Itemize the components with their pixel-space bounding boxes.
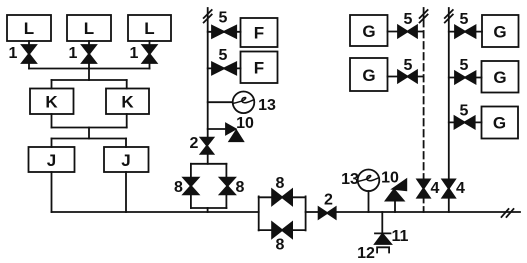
svg-text:G: G	[493, 68, 506, 87]
valve 5c	[398, 11, 417, 38]
valve 1c	[130, 45, 157, 63]
svg-text:8: 8	[236, 179, 245, 196]
check valve 10 bottom (angle)	[381, 170, 406, 213]
svg-text:5: 5	[460, 103, 469, 120]
main pipe (bottom header)	[52, 211, 521, 213]
box F1	[241, 18, 278, 47]
svg-text:5: 5	[219, 10, 228, 27]
wire solid line to G5	[449, 121, 482, 123]
box G3 (right col row1)	[482, 15, 519, 47]
wire L2 to valve 1b	[88, 41, 90, 45]
box G4 (right col row2)	[482, 61, 519, 93]
wire K outputs manifold	[52, 114, 127, 128]
svg-text:K: K	[121, 93, 134, 112]
wire solid line to G4	[449, 77, 482, 79]
svg-text:8: 8	[276, 175, 285, 192]
svg-text:8: 8	[276, 237, 285, 254]
svg-text:1: 1	[130, 45, 139, 62]
pipe break right end	[502, 209, 514, 217]
box J2	[104, 147, 149, 172]
svg-text:1: 1	[9, 45, 18, 62]
box G5 (right col row3)	[482, 107, 519, 139]
line break top dashed	[420, 10, 428, 23]
parallel block 1 bottom manifold	[191, 194, 227, 212]
svg-text:G: G	[362, 22, 375, 41]
svg-text:2: 2	[190, 135, 199, 152]
svg-text:10: 10	[381, 170, 399, 187]
wire center drop to K manifold	[52, 69, 127, 89]
check valve 10 top (angle)	[226, 115, 254, 141]
wire G2 to dashed line	[388, 76, 424, 78]
valve 5e	[455, 11, 476, 38]
svg-text:13: 13	[341, 171, 359, 188]
valve 8b (right vertical)	[220, 178, 245, 196]
svg-text:4: 4	[431, 180, 440, 197]
svg-text:L: L	[144, 19, 154, 38]
svg-text:L: L	[24, 19, 34, 38]
valve 8a (left vertical)	[174, 178, 198, 196]
svg-text:12: 12	[357, 245, 375, 262]
solid right header line	[448, 8, 450, 212]
svg-text:5: 5	[460, 57, 469, 74]
svg-text:K: K	[45, 93, 58, 112]
svg-text:5: 5	[404, 11, 413, 28]
parallel block 1 top manifold	[191, 164, 227, 178]
line break top solid	[445, 10, 453, 23]
svg-text:G: G	[493, 23, 506, 42]
wire branch to gauge 13 top	[208, 101, 233, 103]
valve 5d	[398, 57, 417, 83]
svg-text:J: J	[121, 151, 130, 170]
box G2 (left col row2)	[350, 58, 388, 91]
wire G1 to dashed line	[388, 31, 424, 33]
relief valve 11	[375, 212, 409, 245]
svg-text:5: 5	[219, 47, 228, 64]
svg-text:G: G	[362, 66, 375, 85]
wire branch to valve 10 top	[208, 128, 226, 130]
wire center drop to J manifold	[52, 128, 127, 148]
valve 8d (bottom horizontal)	[272, 222, 292, 253]
vent 12	[357, 245, 389, 262]
valve 4a (on dashed line)	[417, 179, 439, 197]
wire branch to F1	[208, 31, 241, 33]
box L2	[67, 15, 111, 41]
box L1	[7, 15, 51, 41]
valve 5b	[212, 47, 236, 74]
valve 1a	[9, 45, 36, 63]
svg-text:1: 1	[69, 45, 78, 62]
box K2	[106, 89, 149, 115]
box J1	[29, 147, 75, 172]
wire branch to F2	[208, 67, 241, 69]
gauge 13 top	[233, 92, 276, 115]
svg-text:5: 5	[460, 11, 469, 28]
wire L3 to valve 1c	[149, 41, 151, 45]
svg-text:11: 11	[392, 228, 409, 245]
valve 5a	[212, 10, 236, 38]
valve 2 bottom	[319, 192, 336, 219]
box K1	[30, 89, 74, 115]
valve 5f	[455, 57, 476, 84]
svg-text:J: J	[47, 151, 56, 170]
svg-text:8: 8	[174, 179, 183, 196]
box L3	[128, 15, 171, 41]
valve 4b (on solid line)	[442, 179, 465, 197]
svg-text:13: 13	[258, 97, 276, 114]
svg-text:F: F	[254, 24, 264, 43]
valve 1b	[69, 45, 96, 63]
center header line	[207, 8, 209, 164]
valve 5g	[455, 103, 475, 129]
svg-text:2: 2	[324, 192, 333, 209]
svg-text:10: 10	[236, 115, 254, 132]
gauge 13 bottom	[341, 170, 379, 213]
line break top center	[204, 10, 212, 23]
wire J1 down to main pipe	[51, 172, 53, 212]
svg-text:5: 5	[404, 57, 413, 74]
wire solid line to G3	[449, 31, 482, 33]
box F2	[241, 52, 278, 84]
svg-text:4: 4	[456, 180, 465, 197]
dashed header line	[423, 8, 425, 212]
svg-text:L: L	[84, 19, 94, 38]
box G1 (left col row1)	[350, 15, 388, 46]
wire L1 to valve 1a	[28, 41, 30, 45]
valve 2 top	[190, 135, 214, 154]
svg-text:G: G	[493, 114, 506, 133]
svg-text:F: F	[254, 59, 264, 78]
parallel block 2 loop	[259, 196, 306, 230]
wire collect manifold under valves 1	[29, 63, 150, 69]
wire J2 down to main pipe	[125, 172, 127, 212]
valve 8c (top horizontal)	[272, 175, 292, 205]
